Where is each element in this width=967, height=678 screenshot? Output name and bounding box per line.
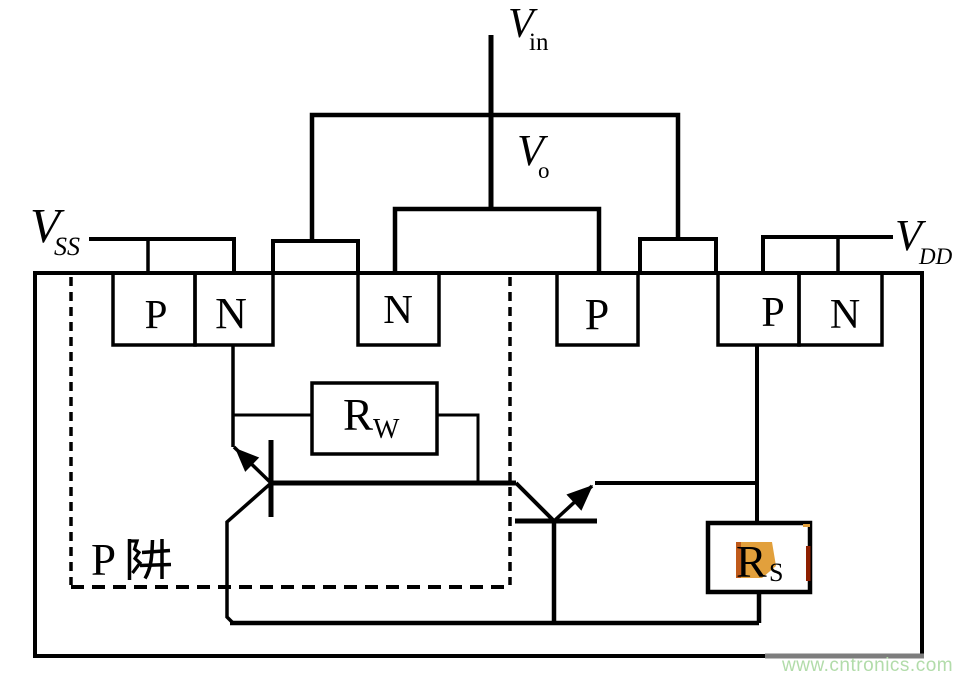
svg-text:P: P xyxy=(585,290,609,339)
svg-text:DD: DD xyxy=(918,244,953,269)
svg-text:P: P xyxy=(91,535,116,585)
svg-text:in: in xyxy=(529,29,549,56)
svg-text:R: R xyxy=(736,536,767,587)
svg-text:SS: SS xyxy=(54,232,80,261)
svg-text:S: S xyxy=(769,558,783,587)
svg-text:N: N xyxy=(215,289,247,338)
svg-text:W: W xyxy=(373,414,400,445)
svg-text:www.cntronics.com: www.cntronics.com xyxy=(781,655,953,676)
svg-text:o: o xyxy=(538,158,550,183)
svg-text:P: P xyxy=(761,290,784,336)
svg-text:N: N xyxy=(830,292,860,338)
svg-text:N: N xyxy=(383,286,413,332)
svg-text:R: R xyxy=(343,390,373,440)
svg-text:P: P xyxy=(145,291,168,337)
